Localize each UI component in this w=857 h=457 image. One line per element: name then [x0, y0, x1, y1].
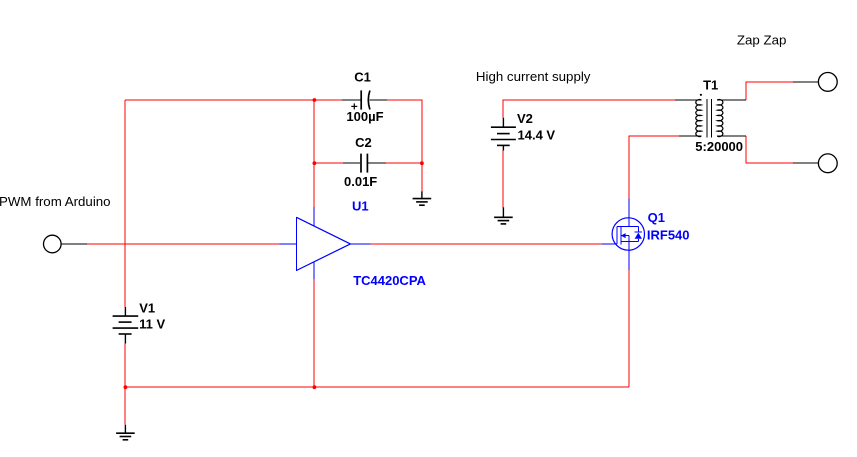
ground below V1: [116, 425, 135, 440]
svg-text:IRF540: IRF540: [647, 228, 690, 243]
svg-text:5:20000: 5:20000: [695, 139, 743, 154]
battery V2: [491, 118, 516, 151]
svg-text:11 V: 11 V: [139, 317, 165, 332]
svg-text:U1: U1: [352, 198, 369, 213]
svg-text:V2: V2: [517, 111, 533, 126]
wire T1 primary bottom to Q1 drain: [629, 136, 679, 199]
transistor Q1 MOSFET IRF540: [602, 199, 645, 270]
ground C1 C2 right: [413, 191, 432, 205]
wire V2 positive to T1 primary top: [503, 100, 675, 118]
svg-text:14.4 V: 14.4 V: [518, 128, 556, 143]
node junction bottom rail U1: [313, 385, 317, 389]
terminal Zap bottom: [793, 154, 837, 173]
node junction top rail: [313, 98, 317, 102]
wire V1 positive feed vertical: [124, 100, 126, 307]
svg-text:TC4420CPA: TC4420CPA: [353, 273, 426, 288]
svg-text:C1: C1: [354, 70, 371, 85]
wire U1 output to Q1 gate: [371, 243, 603, 245]
node junction C2 right: [420, 161, 424, 165]
svg-text:Zap Zap: Zap Zap: [737, 33, 787, 48]
wire mid vertical to U1 top pin: [313, 100, 315, 207]
svg-text:T1: T1: [703, 78, 718, 93]
node junction C2 left: [313, 161, 317, 165]
wire bottom rail: [125, 386, 629, 388]
svg-text:0.01F: 0.01F: [344, 174, 377, 189]
op-amp U1 buffer TC4420CPA: [280, 207, 371, 279]
wire C2 right: [386, 162, 422, 164]
wire V2 negative to ground: [502, 150, 504, 207]
transformer T1: [675, 94, 746, 138]
ground below V2: [494, 207, 513, 224]
terminal Zap top: [793, 73, 837, 92]
terminal PWM input: [44, 235, 88, 253]
svg-text:V1: V1: [139, 301, 155, 316]
svg-text:C2: C2: [355, 135, 372, 150]
svg-text:Q1: Q1: [648, 210, 665, 225]
svg-text:High current supply: High current supply: [476, 69, 591, 84]
wire C2 left: [314, 162, 343, 164]
wire V1 negative to ground: [124, 344, 126, 425]
wire U1 bottom pin to bottom rail: [313, 279, 315, 387]
capacitor C1: [342, 90, 387, 109]
wire top-left rail V1 to C1: [125, 99, 342, 101]
node junction bottom rail left: [124, 385, 128, 389]
svg-text:100µF: 100µF: [346, 109, 383, 124]
battery V1: [113, 307, 139, 344]
wire C1 right to ground: [387, 100, 422, 191]
capacitor C2: [343, 154, 386, 173]
wire Q1 source to bottom rail: [628, 270, 630, 387]
svg-text:PWM from Arduino: PWM from Arduino: [0, 194, 111, 209]
wire T1 secondary top to terminal: [746, 82, 793, 100]
wire PWM input to U1: [87, 243, 280, 245]
wire T1 secondary bottom to terminal: [746, 136, 793, 163]
